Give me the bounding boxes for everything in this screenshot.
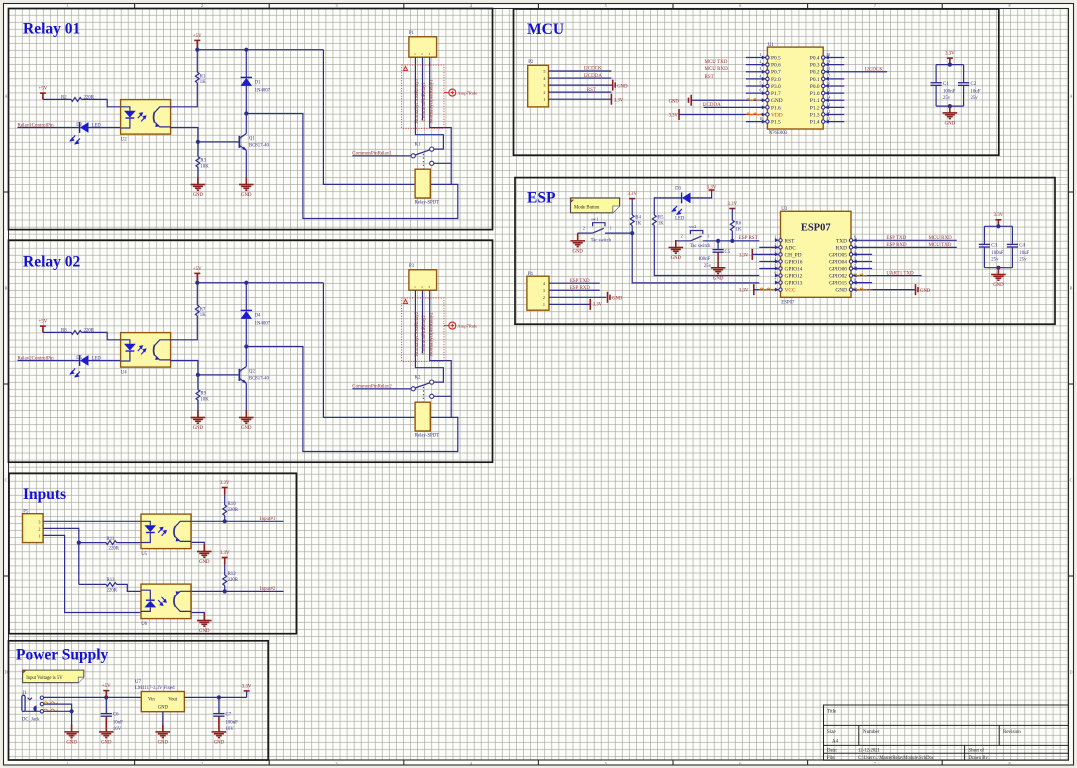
directive Amp7Rule	[444, 322, 478, 329]
wire P5 pin3 to U5 anode	[43, 520, 141, 522]
svg-text:GND: GND	[945, 121, 956, 126]
power port GND (U1)	[669, 95, 692, 106]
svg-text:25v: 25v	[971, 96, 979, 101]
ground (C1C2)	[943, 105, 958, 126]
svg-text:U1: U1	[768, 43, 774, 48]
svg-text:4: 4	[775, 257, 777, 261]
resistor R1 1K	[195, 72, 206, 85]
Power Supply section border	[9, 641, 269, 760]
wire NC to coil right	[450, 396, 452, 417]
pin stub U3.GPIO04	[849, 257, 872, 264]
pin stub U1.P1.3	[822, 110, 845, 117]
svg-text:7: 7	[775, 278, 777, 282]
svg-text:220R: 220R	[109, 547, 120, 552]
relay contacts K1	[411, 143, 434, 170]
svg-text:Size: Size	[827, 730, 836, 735]
wire +5V rail to relay coil	[323, 283, 415, 418]
svg-text:1K: 1K	[200, 313, 206, 318]
svg-text:ESP TXD: ESP TXD	[570, 279, 590, 284]
svg-text:GPIO04: GPIO04	[829, 259, 847, 265]
pin stub U1.P0.3	[822, 60, 845, 67]
wire control pin to LED D2	[18, 127, 80, 129]
wire U3 GPIO02 UART1_TXD	[849, 274, 921, 278]
junction R11 tap	[77, 541, 81, 545]
svg-text:R5: R5	[658, 215, 664, 220]
junction C3C4 bottom	[996, 266, 1000, 270]
svg-text:2: 2	[775, 243, 777, 247]
svg-text:P0.0: P0.0	[810, 84, 820, 90]
svg-text:Relay-SPDT: Relay-SPDT	[415, 433, 440, 438]
regulator U7 LM1117-3.3V	[135, 680, 184, 712]
svg-text:3.3V: 3.3V	[593, 303, 603, 308]
svg-text:5: 5	[543, 69, 545, 74]
wire sw1 node to GPIO13	[632, 233, 759, 283]
wire P1 pin3 to NC net	[430, 57, 452, 163]
svg-text:5: 5	[605, 761, 607, 766]
wire 3.3V to R4	[631, 199, 633, 215]
svg-text:3.3V: 3.3V	[669, 114, 679, 119]
wire J1 middle contact	[44, 704, 72, 711]
svg-text:10uF: 10uF	[1019, 251, 1029, 256]
svg-text:D2: D2	[76, 123, 82, 128]
optocoupler U6	[141, 584, 191, 627]
svg-text:2: 2	[583, 226, 585, 231]
wire P2 pin4 I2CDDA	[549, 77, 612, 79]
svg-text:P0.4: P0.4	[810, 56, 820, 62]
wire sw1 to ground	[577, 232, 579, 234]
wire base node to R9	[197, 375, 199, 390]
svg-text:RXD: RXD	[836, 245, 847, 251]
svg-text:Title: Title	[827, 710, 837, 715]
junction C1C2 bottom	[948, 104, 952, 108]
svg-text:P1.3: P1.3	[810, 112, 820, 118]
svg-text:10: 10	[760, 117, 764, 121]
svg-text:19: 19	[827, 60, 831, 64]
wire U3 GND	[849, 288, 914, 292]
svg-text:D4: D4	[255, 313, 261, 318]
svg-text:P2.0: P2.0	[771, 77, 781, 83]
svg-text:R9: R9	[200, 392, 206, 397]
svg-text:6: 6	[739, 3, 741, 8]
wire Q1 emitter to ground	[245, 150, 247, 177]
svg-text:P1.5: P1.5	[771, 120, 781, 126]
svg-text:C:\Users\..\MasterRelayModule.: C:\Users\..\MasterRelayModule.SchDoc	[858, 756, 934, 761]
power +5V (C6)	[102, 684, 111, 697]
wifi module U3 ESP07	[781, 207, 852, 305]
relay coil Relay-SPDT	[415, 402, 440, 438]
wire D1 anode to collector node	[245, 86, 247, 114]
wire +5V rail	[197, 282, 323, 284]
wire U5 emitter to ground	[192, 542, 205, 544]
wire Input#2	[225, 590, 284, 592]
svg-text:3.3V: 3.3V	[945, 52, 955, 57]
svg-text:2: 2	[543, 295, 545, 300]
svg-text:3.3V: 3.3V	[220, 481, 230, 486]
svg-text:GND: GND	[241, 426, 252, 431]
svg-text:+5V: +5V	[193, 34, 202, 39]
junction C1C2 top	[948, 63, 952, 67]
svg-text:P1.1: P1.1	[810, 98, 820, 104]
svg-text:1K: 1K	[635, 221, 641, 226]
wire D3 to 3.3V	[690, 190, 711, 198]
svg-text:3.3V: 3.3V	[242, 684, 252, 689]
capacitor C6 10uF 16V	[101, 697, 123, 732]
svg-text:3: 3	[760, 67, 762, 71]
wire D4 cathode	[245, 283, 247, 311]
svg-text:16: 16	[827, 81, 831, 85]
resistor R4 1K	[630, 215, 641, 226]
power 3.3V (R12)	[220, 551, 230, 565]
svg-text:6: 6	[760, 89, 762, 93]
pin stub U1.P1.0	[822, 89, 845, 96]
power port 3.3V (P4)	[590, 299, 602, 310]
junction +5V rail	[195, 281, 199, 285]
svg-text:ESP07: ESP07	[801, 223, 831, 234]
power +5V (left of R8)	[39, 320, 48, 333]
svg-text:R4: R4	[635, 215, 641, 220]
svg-text:Vin: Vin	[148, 698, 155, 703]
svg-text:8: 8	[1008, 3, 1010, 8]
svg-text:U3: U3	[781, 207, 787, 212]
svg-text:P1.2: P1.2	[810, 105, 820, 111]
wire R8 to opto U4 anode	[82, 332, 121, 339]
svg-text:Number: Number	[863, 730, 880, 735]
svg-text:Relay 02: Relay 02	[23, 254, 81, 271]
svg-text:LED: LED	[675, 216, 685, 221]
wire P4 pin4 ESP_TXD	[549, 282, 600, 284]
pin stub U3.ADC	[759, 243, 782, 250]
optocoupler U5	[141, 514, 191, 557]
wire 3.3V to R12	[224, 565, 226, 576]
wire junction to R11	[79, 542, 106, 544]
resistor R8 220R	[61, 329, 95, 335]
wire +5V rail	[197, 49, 323, 51]
svg-text:GND: GND	[617, 84, 628, 89]
svg-text:3.3V: 3.3V	[994, 213, 1004, 218]
svg-text:Relay 01: Relay 01	[23, 21, 80, 38]
svg-text:GND: GND	[993, 283, 1004, 288]
power 3.3V (R4)	[627, 192, 637, 199]
svg-text:Amp7Rule: Amp7Rule	[457, 323, 477, 328]
MCU section border	[514, 9, 999, 155]
svg-text:GND: GND	[241, 193, 252, 198]
capacitor C2 10uF 25v	[958, 65, 981, 107]
wire U6 emitter to ground	[192, 613, 205, 615]
pin stub U1.P3.0	[746, 81, 769, 88]
svg-text:16V: 16V	[226, 727, 235, 732]
title block	[824, 705, 1069, 761]
svg-text:5: 5	[760, 81, 762, 85]
wire Q2 emitter to ground	[245, 383, 247, 410]
wire R13 to U6 anode	[117, 584, 142, 591]
svg-text:GPIO02: GPIO02	[829, 274, 847, 280]
svg-text:GPIO13: GPIO13	[785, 281, 803, 287]
svg-text:2: 2	[201, 761, 203, 766]
svg-text:3: 3	[543, 288, 545, 293]
svg-text:11: 11	[827, 117, 831, 121]
junction C7	[217, 695, 221, 699]
wire P5 pin2 down	[43, 528, 79, 584]
wire sw2 to ground	[675, 240, 677, 242]
power 3.3V (C1C2)	[945, 52, 955, 65]
pin stub U1.P0.4	[822, 53, 845, 60]
svg-text:Sheet of: Sheet of	[969, 748, 985, 753]
svg-text:RST: RST	[587, 88, 596, 93]
svg-text:+5V: +5V	[102, 684, 111, 689]
resistor R6 1K	[730, 220, 741, 232]
directive Amp7Rule	[444, 89, 478, 96]
wire R4 to sw1 node	[631, 226, 633, 234]
connector J1 DC_Jack	[22, 691, 44, 722]
svg-text:P0.5: P0.5	[771, 56, 781, 62]
wire C1C2 bottom rail	[936, 105, 964, 107]
svg-text:16V: 16V	[113, 727, 122, 732]
junction C6	[104, 695, 108, 699]
svg-text:P1.4: P1.4	[810, 120, 820, 126]
svg-text:6: 6	[739, 761, 741, 766]
ground (C6)	[99, 724, 114, 745]
svg-text:P1: P1	[409, 31, 415, 36]
svg-text:R7: R7	[200, 307, 206, 312]
wire D4 anode to collector node	[245, 319, 247, 347]
wire U5 collector to R10	[192, 520, 225, 522]
svg-text:GND: GND	[713, 276, 724, 281]
svg-text:File:: File:	[827, 756, 836, 761]
svg-text:P0.7: P0.7	[771, 70, 781, 76]
power +5V (top, R1)	[193, 34, 202, 50]
capacitor C3 100nF 25v	[979, 226, 1004, 267]
connector P2	[528, 60, 549, 107]
wire P1 pin1 to NO contact	[415, 57, 443, 149]
pin stub U3.GPIO16	[759, 257, 782, 264]
svg-text:GPIO12: GPIO12	[785, 274, 803, 280]
svg-text:GPIO15: GPIO15	[829, 281, 847, 287]
connector P1	[409, 31, 437, 57]
svg-text:U5: U5	[141, 552, 147, 557]
svg-text:1K: 1K	[658, 221, 664, 226]
wire opto emitter to base node	[171, 361, 198, 375]
wire base node to R3	[197, 142, 199, 157]
ground (below R3)	[191, 177, 206, 198]
svg-text:I2CDCK: I2CDCK	[865, 68, 883, 73]
wire U3 TXD	[849, 236, 957, 243]
LED D3	[672, 186, 690, 221]
wire collector node to relay NC net	[246, 347, 457, 452]
pin circle U3.GPIO13	[775, 278, 783, 285]
wire P3 pin2 stub	[422, 290, 424, 353]
svg-text:2: 2	[201, 3, 203, 8]
svg-text:0: 0	[854, 278, 856, 282]
wire +5V to R8	[43, 331, 71, 333]
svg-text:Relay-SPDT: Relay-SPDT	[415, 200, 440, 205]
svg-text:25v: 25v	[1019, 257, 1027, 262]
wire R3 to ground	[197, 167, 199, 177]
svg-text:CommonPinRelay1: CommonPinRelay1	[422, 82, 427, 122]
wire U1 P0.2 I2CDCK	[822, 67, 888, 74]
wire GND to U1	[691, 98, 769, 102]
junction base node	[196, 373, 200, 377]
svg-text:NormallyCloseRelay2: NormallyCloseRelay2	[415, 311, 420, 356]
svg-text:R1: R1	[200, 74, 206, 79]
svg-text:P3.0: P3.0	[771, 84, 781, 90]
svg-text:ESP07: ESP07	[781, 300, 795, 305]
svg-text:Vout: Vout	[168, 698, 177, 703]
wire U6 collector to R12	[192, 590, 225, 592]
svg-text:BC817-40: BC817-40	[249, 376, 270, 381]
svg-text:UART1 TXD: UART1 TXD	[886, 271, 914, 276]
wire C1C2 top rail	[936, 64, 964, 66]
svg-text:12-12-2021: 12-12-2021	[858, 748, 881, 753]
resistor R7 1K	[195, 305, 206, 318]
wire base node to Q1	[198, 141, 240, 143]
ground (C7)	[212, 724, 227, 745]
svg-text:3.3V: 3.3V	[739, 253, 749, 258]
wire rail to 3.3V	[246, 691, 248, 698]
wire common pin	[352, 388, 411, 390]
wire R13 feed	[79, 583, 106, 585]
svg-text:10K: 10K	[200, 165, 209, 170]
ground (below R9)	[191, 410, 206, 431]
svg-text:2: 2	[38, 526, 40, 531]
LED D5	[70, 355, 101, 377]
svg-text:C1: C1	[943, 82, 949, 87]
svg-text:P0.3: P0.3	[810, 63, 820, 69]
svg-text:R2: R2	[61, 96, 67, 101]
svg-text:A: A	[4, 94, 7, 99]
svg-text:100nF: 100nF	[698, 257, 711, 262]
svg-text:NormallyOpenRelay1: NormallyOpenRelay1	[429, 79, 434, 124]
junction C3C4 top	[996, 224, 1000, 228]
wire common pin	[352, 155, 411, 157]
svg-text:4: 4	[760, 74, 762, 78]
svg-text:P4: P4	[528, 272, 534, 277]
junction collector node	[244, 344, 248, 348]
pin stub U1.P1.2	[822, 103, 845, 110]
erc marker J1 pin2	[44, 702, 58, 704]
svg-text:J1: J1	[23, 691, 28, 696]
svg-text:Amp7Rule: Amp7Rule	[457, 90, 477, 95]
svg-text:Q2: Q2	[249, 369, 255, 374]
svg-text:25v: 25v	[704, 264, 712, 269]
wire J1 sleeve contact	[44, 710, 72, 712]
wire main 5V rail	[44, 696, 142, 698]
svg-text:C5: C5	[725, 250, 731, 255]
svg-text:ESP: ESP	[527, 190, 556, 207]
power port 3.3V (P2)	[611, 94, 623, 105]
transistor Q2 BC817-40	[239, 367, 269, 384]
power 3.3V (PS out)	[242, 684, 252, 691]
svg-text:3.3V: 3.3V	[614, 98, 624, 103]
svg-text:Power Supply: Power Supply	[16, 647, 109, 664]
wire P1 pin2 stub	[422, 57, 424, 120]
svg-text:1: 1	[610, 226, 612, 231]
svg-text:GND: GND	[214, 740, 225, 745]
svg-text:C: C	[1070, 478, 1073, 483]
wire J1 ground drop	[71, 711, 73, 724]
ESP section border	[515, 178, 1055, 325]
power port 3.3V (CH_PD)	[739, 249, 782, 260]
svg-text:P1.0: P1.0	[810, 91, 820, 97]
wire U3 RXD	[849, 243, 957, 250]
svg-text:220R: 220R	[228, 578, 239, 583]
svg-text:A: A	[1069, 94, 1072, 99]
power 3.3V (R6)	[727, 202, 737, 209]
junction R12	[223, 589, 227, 593]
svg-text:BC817-40: BC817-40	[249, 143, 270, 148]
relay contacts K2	[411, 376, 434, 403]
svg-text:2: 2	[760, 60, 762, 64]
svg-text:100nF: 100nF	[943, 89, 956, 94]
wire P4 pin2 GND	[549, 296, 606, 298]
ground (sw1)	[570, 233, 585, 254]
ground (C5)	[711, 260, 726, 281]
svg-text:C7: C7	[226, 713, 232, 718]
svg-text:U7: U7	[135, 680, 141, 685]
connector P3	[409, 264, 437, 290]
wire NC to coil right	[450, 163, 452, 184]
wire R5 to GPIO12	[654, 226, 759, 276]
ground (below Q2)	[239, 410, 254, 431]
power port GND (P2)	[613, 80, 628, 91]
svg-text:25v: 25v	[991, 257, 999, 262]
svg-text:7: 7	[874, 761, 876, 766]
svg-text:P0.6: P0.6	[771, 63, 781, 69]
svg-text:MCU TXD: MCU TXD	[929, 243, 952, 248]
compile mask (red dashed box)	[402, 65, 444, 128]
svg-text:3: 3	[543, 83, 545, 88]
svg-text:GPIO16: GPIO16	[785, 259, 803, 265]
relay coil Relay-SPDT	[415, 169, 440, 205]
ground (below Q1)	[239, 177, 254, 198]
Inputs section border	[9, 473, 296, 633]
pin stub U1.P0.0	[822, 81, 845, 88]
wire control pin to LED D5	[18, 360, 80, 362]
svg-text:20: 20	[827, 53, 831, 57]
junction base node	[196, 140, 200, 144]
svg-text:14: 14	[827, 96, 831, 100]
junction +5V rail	[195, 48, 199, 52]
note Input Voltage is 5V	[23, 670, 84, 683]
wire collector node to relay NC net	[246, 114, 457, 219]
pin circle U3.RST	[775, 236, 783, 243]
svg-text:D: D	[1069, 670, 1072, 675]
erc marker J1 pin3	[44, 709, 58, 711]
svg-text:3.3V: 3.3V	[220, 551, 230, 556]
wire LED to opto U2 cathode	[88, 127, 120, 129]
svg-text:R12: R12	[228, 572, 237, 577]
wire R1 to opto collector	[171, 83, 198, 107]
svg-text:D5: D5	[76, 356, 82, 361]
wire D1 cathode	[245, 50, 247, 78]
wire C3C4 bottom rail	[984, 267, 1012, 269]
power port GND (P4)	[608, 292, 623, 303]
wire R11 to U5 cathode	[117, 542, 142, 544]
svg-text:+5V: +5V	[193, 267, 202, 272]
svg-text:ESP RXD: ESP RXD	[570, 286, 591, 291]
compile mask (red dashed box)	[402, 298, 444, 361]
svg-text:P5: P5	[23, 509, 29, 514]
wire +5V to R7	[196, 283, 198, 306]
wire R10 to junction	[224, 516, 226, 522]
resistor R5 1K	[652, 215, 664, 226]
capacitor C1 100nF 25v	[931, 65, 956, 107]
wire node to U3 RST	[732, 240, 759, 242]
pin circle U3.GPIO12	[775, 271, 783, 278]
svg-text:GND: GND	[920, 289, 931, 294]
power 3.3V (R10)	[220, 481, 230, 495]
svg-text:Tac switch: Tac switch	[690, 244, 711, 249]
svg-text:GND: GND	[158, 706, 169, 711]
